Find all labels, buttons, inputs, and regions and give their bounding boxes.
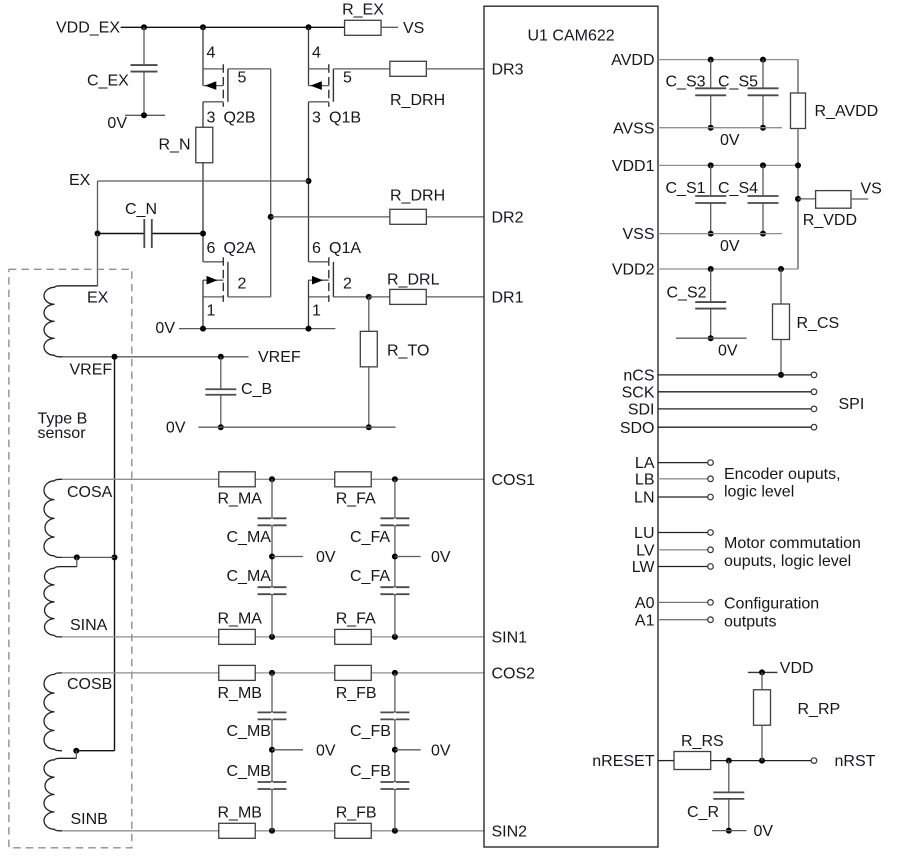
- svg-text:EX: EX: [87, 290, 109, 307]
- svg-text:R_EX: R_EX: [342, 2, 384, 19]
- svg-text:0V: 0V: [431, 742, 451, 759]
- svg-text:nRST: nRST: [835, 753, 876, 770]
- svg-text:LW: LW: [632, 559, 656, 576]
- svg-text:outputs: outputs: [724, 614, 776, 631]
- svg-text:0V: 0V: [316, 742, 336, 759]
- svg-text:R_VDD: R_VDD: [803, 212, 857, 229]
- svg-text:3: 3: [207, 109, 216, 126]
- svg-text:COS1: COS1: [492, 472, 536, 489]
- svg-text:C_MA: C_MA: [227, 529, 272, 546]
- svg-text:Configuration: Configuration: [724, 596, 819, 613]
- svg-text:0V: 0V: [155, 320, 175, 337]
- svg-text:VDD1: VDD1: [612, 158, 655, 175]
- svg-text:R_MB: R_MB: [218, 805, 262, 822]
- svg-text:R_CS: R_CS: [797, 315, 840, 332]
- svg-text:COSA: COSA: [67, 484, 113, 501]
- svg-text:C_B: C_B: [241, 381, 272, 398]
- svg-text:R_MB: R_MB: [218, 685, 262, 702]
- svg-text:R_FB: R_FB: [336, 805, 377, 822]
- svg-text:R_RS: R_RS: [681, 733, 724, 750]
- svg-text:R_TO: R_TO: [387, 343, 429, 360]
- svg-text:R_AVDD: R_AVDD: [815, 103, 879, 120]
- svg-text:1: 1: [207, 303, 216, 320]
- svg-text:6: 6: [207, 240, 216, 257]
- svg-text:C_FB: C_FB: [350, 723, 391, 740]
- svg-text:C_S5: C_S5: [718, 74, 758, 91]
- svg-text:C_EX: C_EX: [87, 73, 129, 90]
- svg-text:nCS: nCS: [623, 368, 654, 385]
- svg-text:logic level: logic level: [724, 484, 794, 501]
- svg-text:C_S4: C_S4: [718, 180, 758, 197]
- svg-text:sensor: sensor: [38, 425, 87, 442]
- svg-text:VS: VS: [861, 181, 882, 198]
- svg-text:6: 6: [312, 240, 321, 257]
- svg-text:2: 2: [343, 276, 352, 293]
- svg-text:VREF: VREF: [70, 362, 113, 379]
- svg-text:DR3: DR3: [492, 61, 524, 78]
- svg-text:R_FB: R_FB: [336, 685, 377, 702]
- svg-text:R_MA: R_MA: [218, 611, 263, 628]
- svg-text:Q2B: Q2B: [224, 109, 256, 126]
- svg-text:0V: 0V: [431, 549, 451, 566]
- svg-text:0V: 0V: [107, 115, 127, 132]
- svg-text:C_S1: C_S1: [666, 180, 706, 197]
- svg-text:AVSS: AVSS: [613, 120, 655, 137]
- svg-text:5: 5: [343, 70, 352, 87]
- svg-text:SIN2: SIN2: [492, 823, 528, 840]
- svg-text:nRESET: nRESET: [592, 753, 654, 770]
- svg-text:2: 2: [238, 276, 247, 293]
- svg-text:R_DRH: R_DRH: [390, 188, 445, 205]
- svg-text:0V: 0V: [166, 420, 186, 437]
- svg-text:AVDD: AVDD: [611, 52, 654, 69]
- svg-text:EX: EX: [69, 172, 91, 189]
- svg-text:SCK: SCK: [622, 384, 655, 401]
- svg-text:C_MB: C_MB: [227, 723, 271, 740]
- svg-text:ouputs, logic level: ouputs, logic level: [724, 553, 851, 570]
- svg-text:C_R: C_R: [687, 804, 719, 821]
- svg-text:5: 5: [238, 70, 247, 87]
- svg-text:4: 4: [312, 45, 321, 62]
- svg-text:LA: LA: [635, 455, 655, 472]
- svg-text:U1 CAM622: U1 CAM622: [528, 28, 615, 45]
- svg-text:VDD_EX: VDD_EX: [56, 20, 120, 37]
- svg-text:VS: VS: [403, 20, 424, 37]
- svg-text:C_FA: C_FA: [350, 529, 390, 546]
- svg-text:LN: LN: [634, 490, 654, 507]
- svg-text:0V: 0V: [316, 549, 336, 566]
- svg-text:LU: LU: [634, 525, 654, 542]
- svg-text:SIN1: SIN1: [492, 630, 528, 647]
- svg-text:R_N: R_N: [158, 137, 190, 154]
- svg-text:DR1: DR1: [492, 290, 524, 307]
- svg-text:SINB: SINB: [71, 811, 108, 828]
- svg-text:COS2: COS2: [492, 666, 536, 683]
- svg-text:DR2: DR2: [492, 210, 524, 227]
- svg-text:R_FA: R_FA: [336, 611, 376, 628]
- svg-text:C_FB: C_FB: [350, 763, 391, 780]
- svg-text:0V: 0V: [754, 823, 774, 840]
- svg-text:VDD: VDD: [780, 660, 814, 677]
- svg-text:VDD2: VDD2: [612, 262, 655, 279]
- svg-text:C_N: C_N: [125, 201, 157, 218]
- svg-text:SDO: SDO: [620, 420, 655, 437]
- svg-text:LV: LV: [636, 542, 655, 559]
- svg-text:R_DRL: R_DRL: [387, 272, 440, 289]
- svg-text:SPI: SPI: [839, 396, 865, 413]
- svg-text:1: 1: [312, 303, 321, 320]
- svg-text:C_MA: C_MA: [227, 568, 272, 585]
- svg-text:3: 3: [312, 109, 321, 126]
- svg-text:R_MA: R_MA: [218, 491, 263, 508]
- svg-text:R_RP: R_RP: [798, 701, 841, 718]
- svg-text:R_DRH: R_DRH: [390, 92, 445, 109]
- svg-text:A1: A1: [635, 612, 655, 629]
- svg-text:SDI: SDI: [628, 402, 655, 419]
- svg-text:0V: 0V: [720, 238, 740, 255]
- svg-text:R_FA: R_FA: [336, 491, 376, 508]
- svg-text:C_FA: C_FA: [350, 568, 390, 585]
- svg-text:Q2A: Q2A: [224, 240, 256, 257]
- svg-text:Encoder ouputs,: Encoder ouputs,: [724, 466, 841, 483]
- svg-text:0V: 0V: [720, 132, 740, 149]
- svg-text:C_MB: C_MB: [227, 763, 271, 780]
- svg-text:C_S3: C_S3: [666, 74, 706, 91]
- svg-text:VSS: VSS: [622, 226, 654, 243]
- svg-text:Motor commutation: Motor commutation: [724, 535, 861, 552]
- svg-text:Q1B: Q1B: [329, 109, 361, 126]
- svg-text:C_S2: C_S2: [667, 284, 707, 301]
- svg-text:4: 4: [207, 45, 216, 62]
- svg-text:0V: 0V: [718, 343, 738, 360]
- svg-text:VREF: VREF: [258, 349, 301, 366]
- svg-text:COSB: COSB: [67, 676, 112, 693]
- svg-text:LB: LB: [635, 471, 655, 488]
- svg-text:A0: A0: [635, 595, 655, 612]
- svg-text:Q1A: Q1A: [329, 240, 361, 257]
- svg-text:SINA: SINA: [70, 617, 108, 634]
